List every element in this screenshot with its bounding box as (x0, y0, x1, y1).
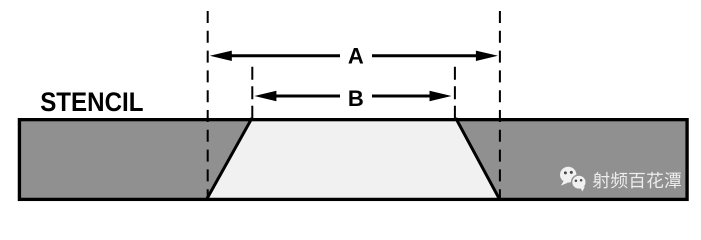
watermark text 射频百花潭 (593, 172, 681, 189)
extension line right outer (499, 11, 501, 199)
dimension arrow B (274, 95, 433, 98)
aperture (trapezoid opening) (207, 118, 500, 201)
svg-text:B: B (348, 86, 364, 111)
stencil body (gray band) (18, 118, 689, 201)
aperture right wall (456, 118, 500, 199)
stencil border (19, 120, 687, 200)
extension line right inner (454, 67, 456, 118)
svg-text:A: A (348, 43, 364, 68)
extension line left outer (207, 11, 209, 199)
aperture left wall (207, 118, 252, 199)
extension line left inner (251, 67, 253, 118)
svg-text:STENCIL: STENCIL (40, 87, 143, 117)
watermark wechat icon (560, 167, 586, 192)
dimension arrow A (229, 54, 479, 57)
